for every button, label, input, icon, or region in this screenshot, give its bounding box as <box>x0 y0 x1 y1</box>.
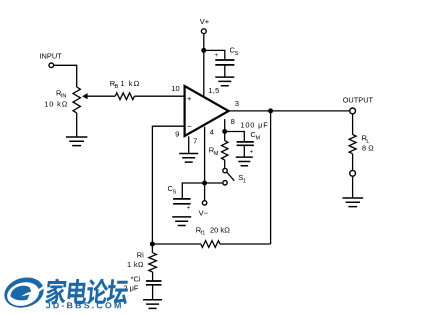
svg-text:8: 8 <box>231 117 235 126</box>
svg-text:f1: f1 <box>201 231 206 237</box>
svg-text:OUTPUT: OUTPUT <box>343 96 374 105</box>
svg-text:100 μF: 100 μF <box>240 121 268 130</box>
svg-text:1 kΩ: 1 kΩ <box>121 79 141 88</box>
svg-text:10: 10 <box>171 84 179 93</box>
svg-text:M: M <box>256 136 261 142</box>
svg-text:*Ci: *Ci <box>131 275 141 284</box>
svg-text:+: + <box>187 94 192 103</box>
svg-text:+: + <box>187 206 191 212</box>
svg-text:7: 7 <box>193 136 197 145</box>
svg-text:20 kΩ: 20 kΩ <box>210 226 230 235</box>
svg-text:INPUT: INPUT <box>40 52 63 61</box>
svg-text:+: + <box>215 53 219 59</box>
svg-text:S: S <box>173 190 177 196</box>
svg-text:1: 1 <box>243 178 246 184</box>
svg-text:3: 3 <box>235 99 239 108</box>
svg-text:10 kΩ: 10 kΩ <box>44 100 68 109</box>
svg-text:1 kΩ: 1 kΩ <box>127 260 144 269</box>
svg-text:V−: V− <box>199 208 209 217</box>
svg-text:V+: V+ <box>200 17 210 26</box>
svg-text:4: 4 <box>210 127 214 136</box>
svg-text:1,5: 1,5 <box>208 86 219 95</box>
svg-text:8 Ω: 8 Ω <box>362 144 374 153</box>
svg-text:S: S <box>235 51 239 57</box>
svg-text:Ri: Ri <box>137 250 144 259</box>
svg-text:−: − <box>187 122 192 131</box>
svg-text:B: B <box>115 84 119 90</box>
svg-text:M: M <box>214 151 219 157</box>
svg-text:9: 9 <box>175 130 179 139</box>
svg-text:+: + <box>250 150 254 156</box>
